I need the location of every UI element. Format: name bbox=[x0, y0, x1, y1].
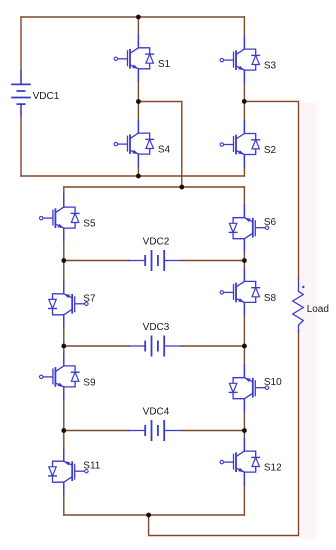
junction node 6 bbox=[61, 258, 66, 263]
wire: ladder left leg segment 1 bbox=[63, 187, 65, 207]
svg-text:S2: S2 bbox=[264, 145, 277, 156]
battery VDC3 bbox=[128, 336, 181, 357]
wire: ladder left leg segment 2 bbox=[63, 228, 65, 260]
junction node 8 bbox=[61, 344, 66, 349]
wire: H-bridge bottom rail bbox=[21, 175, 244, 177]
wire: VDC3 rung left bbox=[64, 345, 129, 347]
wire: VDC3 rung right bbox=[181, 345, 244, 347]
wire: VDC4 rung right bbox=[181, 430, 244, 432]
svg-text:S3: S3 bbox=[264, 61, 277, 72]
svg-text:S5: S5 bbox=[83, 219, 96, 230]
transistor S11 (IGBT with diode) bbox=[48, 448, 88, 496]
wire: S1 emitter to S4 collector (node A leg) bbox=[137, 69, 139, 133]
wire: S3 collector from top rail bbox=[243, 17, 245, 49]
wire: ladder left leg segment 3 bbox=[63, 261, 65, 294]
transistor S3 (IGBT with diode) bbox=[220, 36, 260, 84]
wire: VDC1 bottom lead to bottom rail bbox=[20, 104, 22, 176]
battery VDC4 bbox=[128, 420, 181, 441]
svg-text:VDC2: VDC2 bbox=[143, 236, 170, 247]
wire: ladder left leg segment 6 bbox=[63, 387, 65, 431]
svg-text:VDC4: VDC4 bbox=[143, 406, 170, 417]
junction node 12 bbox=[146, 513, 151, 518]
wire: ladder bottom rail bbox=[64, 514, 245, 516]
transistor S7 (IGBT with diode) bbox=[48, 280, 88, 328]
svg-text:S10: S10 bbox=[264, 377, 282, 388]
junction node 5 bbox=[179, 185, 184, 190]
wire: ladder left leg segment 7 bbox=[63, 431, 65, 462]
junction node 10 bbox=[61, 428, 66, 433]
transistor S8 (IGBT with diode) bbox=[220, 268, 260, 316]
wire: ladder right leg segment 4 bbox=[243, 302, 245, 346]
transistor S12 (IGBT with diode) bbox=[220, 438, 260, 486]
battery VDC2 bbox=[128, 250, 181, 271]
transistor S10 (IGBT with diode) bbox=[229, 364, 269, 412]
transistor S6 (IGBT with diode) bbox=[229, 204, 269, 252]
battery VDC1 bbox=[11, 70, 31, 117]
wire: VDC4 rung left bbox=[64, 430, 129, 432]
wire: ladder left leg segment 8 bbox=[63, 482, 65, 515]
junction node 4 bbox=[136, 174, 141, 179]
resistor Load bbox=[293, 278, 304, 333]
svg-text:S7: S7 bbox=[83, 293, 96, 304]
wire: S3 emitter to S2 collector (node B leg) bbox=[243, 70, 245, 133]
wire: node B to load top bbox=[244, 101, 298, 278]
load polarity dot bbox=[302, 286, 304, 288]
wire: ladder right leg segment 7 bbox=[243, 431, 245, 452]
svg-text:S9: S9 bbox=[83, 377, 96, 388]
wire: ladder right leg segment 2 bbox=[243, 239, 245, 261]
svg-text:S4: S4 bbox=[158, 145, 171, 156]
transistor S1 (IGBT with diode) bbox=[114, 34, 154, 82]
transistor S5 (IGBT with diode) bbox=[40, 194, 80, 242]
wire: ladder right leg segment 1 bbox=[243, 187, 245, 218]
wire: ladder right leg segment 5 bbox=[243, 346, 245, 378]
wire: ladder left leg segment 5 bbox=[63, 346, 65, 366]
junction node 9 bbox=[242, 344, 247, 349]
wire: VDC1 top lead bbox=[20, 17, 22, 84]
wire: S1 collector from top rail bbox=[137, 17, 139, 48]
wire: ladder right leg segment 3 bbox=[243, 261, 245, 282]
svg-text:S11: S11 bbox=[83, 461, 100, 472]
wire: S2 emitter to bottom rail bbox=[243, 155, 245, 177]
wire: ladder right leg segment 6 bbox=[243, 399, 245, 431]
junction node 7 bbox=[242, 258, 247, 263]
svg-text:S6: S6 bbox=[264, 217, 277, 228]
junction node 2 bbox=[136, 99, 141, 104]
wire: VDC2 rung right bbox=[181, 260, 244, 262]
transistor S9 (IGBT with diode) bbox=[40, 352, 80, 400]
svg-text:VDC3: VDC3 bbox=[143, 322, 170, 333]
svg-text:S8: S8 bbox=[264, 293, 277, 304]
junction node 1 bbox=[136, 15, 141, 20]
wire: ladder right leg segment 8 bbox=[243, 472, 245, 515]
transistor S4 (IGBT with diode) bbox=[114, 120, 154, 168]
junction node 3 bbox=[242, 99, 247, 104]
wire: node A jumper to ladder top rail bbox=[138, 102, 181, 188]
wire: ladder left leg segment 4 bbox=[63, 315, 65, 346]
junction node 11 bbox=[242, 428, 247, 433]
transistor S2 (IGBT with diode) bbox=[220, 120, 260, 168]
wire: bottom jumper to load bbox=[149, 331, 299, 536]
svg-text:S1: S1 bbox=[158, 59, 171, 70]
svg-text:VDC1: VDC1 bbox=[33, 91, 60, 102]
wire: ladder top rail bbox=[64, 186, 245, 188]
wire: H-bridge top rail bbox=[21, 16, 244, 18]
svg-text:Load: Load bbox=[307, 304, 329, 315]
wire: VDC2 rung left bbox=[64, 260, 129, 262]
svg-text:S12: S12 bbox=[264, 463, 282, 474]
wire: S4 emitter to bottom rail bbox=[137, 154, 139, 176]
